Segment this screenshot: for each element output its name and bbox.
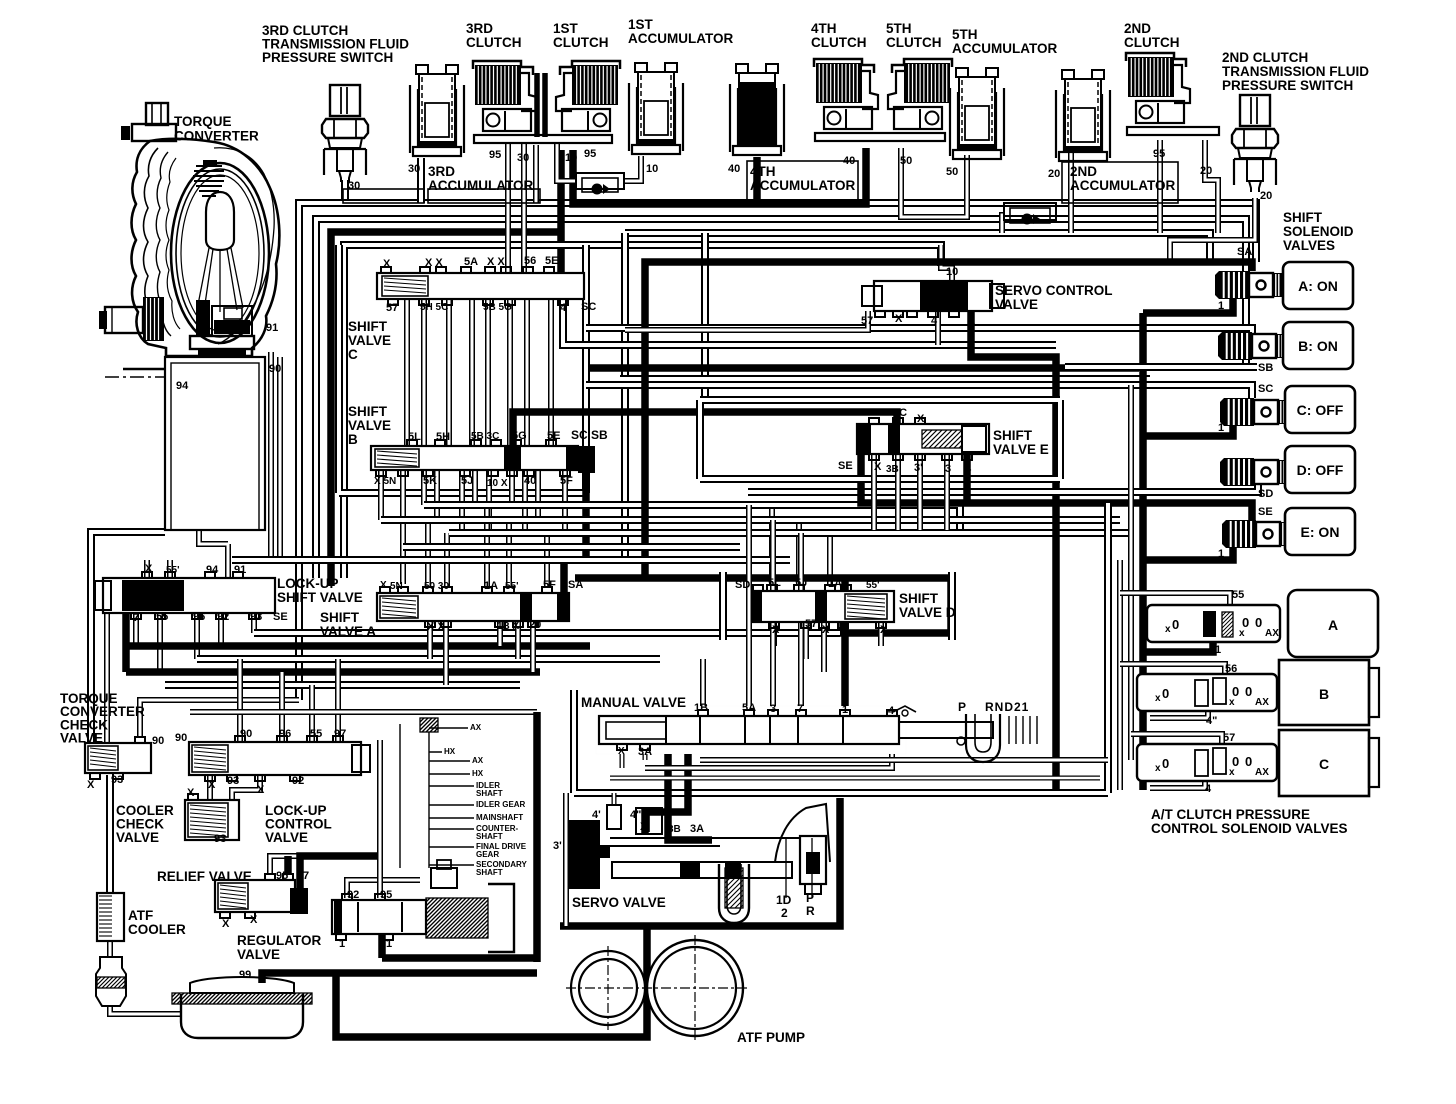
svg-text:VALVE: VALVE — [265, 830, 308, 845]
wire 3rd accumulator down — [417, 158, 425, 203]
svg-text:5F: 5F — [560, 475, 573, 487]
svg-text:AX: AX — [1265, 628, 1279, 639]
svg-text:5J: 5J — [461, 475, 473, 487]
left pipe 2 — [104, 613, 110, 743]
svg-text:0: 0 — [1162, 756, 1169, 771]
svg-text:x: x — [1239, 628, 1245, 639]
pressure switch 3rd clutch — [322, 85, 368, 182]
heavy relief to regulator — [288, 856, 380, 893]
wire 3rd clutch 30 drop — [533, 145, 539, 203]
heavy servo box — [560, 798, 840, 926]
wire 10 1st accumulator — [624, 156, 641, 181]
svg-text:1: 1 — [386, 938, 392, 950]
heavy under valve A — [1143, 628, 1213, 652]
svg-text:0: 0 — [1255, 615, 1262, 630]
svg-text:5J: 5J — [795, 577, 807, 589]
wire x625 down — [621, 233, 629, 560]
svg-text:7: 7 — [303, 870, 309, 882]
svg-text:20: 20 — [1200, 165, 1212, 177]
svg-text:95: 95 — [584, 148, 596, 160]
wire check to 1st clutch — [557, 143, 576, 181]
pipe y778 inner manual box — [610, 776, 1100, 781]
pipes 90/91 torque converter down — [268, 352, 274, 560]
56 pipe to valve B — [1120, 664, 1225, 674]
svg-text:5K: 5K — [423, 475, 437, 487]
svg-text:HX: HX — [444, 747, 456, 756]
wire x705 down — [701, 233, 709, 400]
svg-text:R: R — [806, 904, 815, 918]
shift solenoid E: ON — [1222, 520, 1226, 548]
svg-text:REGULATOR: REGULATOR — [237, 933, 322, 948]
svg-text:x: x — [1155, 693, 1161, 704]
svg-text:57: 57 — [1223, 732, 1235, 744]
heavy line to solenoid C — [1143, 424, 1233, 436]
svg-text:SOLENOID: SOLENOID — [1283, 224, 1354, 239]
svg-text:40: 40 — [524, 475, 536, 487]
manual valve detent — [966, 714, 1000, 762]
svg-text:3C: 3C — [893, 407, 907, 419]
svg-text:1ST: 1ST — [628, 17, 654, 32]
svg-text:4': 4' — [592, 809, 601, 821]
svg-text:x: x — [1155, 763, 1161, 774]
svg-text:90: 90 — [152, 735, 164, 747]
heavy 3C line valve B to valve E — [513, 412, 897, 446]
wire y233 run — [625, 233, 1210, 262]
wire 2nd clutch 20 — [1205, 140, 1218, 233]
svg-text:50 30: 50 30 — [424, 581, 449, 592]
shift valve A bottom pipes — [427, 622, 433, 659]
torque converter check valve — [85, 743, 151, 773]
svg-text:5B 5G: 5B 5G — [483, 302, 512, 313]
svg-text:95: 95 — [489, 149, 501, 161]
big pipe box manual valve — [574, 503, 1108, 793]
wire 95 3rd clutch — [505, 143, 511, 273]
svg-text:SHIFT VALVE: SHIFT VALVE — [277, 590, 363, 605]
svg-text:1A: 1A — [828, 578, 842, 590]
svg-text:SD: SD — [735, 579, 750, 591]
svg-text:MAINSHAFT: MAINSHAFT — [476, 813, 523, 822]
svg-text:55: 55 — [1232, 589, 1244, 601]
svg-text:3B: 3B — [886, 464, 899, 475]
svg-text:VALVES: VALVES — [1283, 238, 1335, 253]
svg-text:VALVE E: VALVE E — [993, 442, 1049, 457]
svg-text:90: 90 — [175, 732, 187, 744]
svg-text:PRESSURE SWITCH: PRESSURE SWITCH — [1222, 78, 1353, 93]
lock-up valve top pipes — [144, 560, 150, 578]
svg-text:SD: SD — [1258, 488, 1273, 500]
wire heavy 4th accumulator drop — [753, 157, 761, 204]
lock-up control bottom pipes — [207, 776, 213, 800]
svg-text:X: X — [917, 413, 925, 425]
svg-text:20: 20 — [1048, 168, 1060, 180]
svg-text:96: 96 — [193, 611, 205, 623]
svg-text:SA: SA — [1237, 246, 1252, 258]
5th accumulator — [950, 68, 1004, 159]
svg-text:X: X — [187, 787, 195, 799]
svg-text:1B: 1B — [694, 702, 708, 714]
svg-text:1: 1 — [841, 620, 847, 632]
svg-text:5E: 5E — [545, 255, 558, 267]
svg-text:90: 90 — [240, 728, 252, 740]
shift solenoid A: ON — [1215, 271, 1219, 299]
heavy manual 3A — [645, 744, 688, 834]
svg-text:10: 10 — [565, 152, 577, 164]
pipe run y345 — [563, 299, 1056, 345]
svg-text:0: 0 — [1172, 617, 1179, 632]
svg-text:X X: X X — [425, 257, 443, 269]
svg-text:1: 1 — [1218, 300, 1224, 312]
svg-text:HX: HX — [472, 769, 484, 778]
oil pan — [181, 994, 303, 1038]
svg-text:SHAFT: SHAFT — [476, 789, 503, 798]
svg-text:VALVE D: VALVE D — [899, 605, 956, 620]
servo control 4 pipe down — [935, 311, 941, 345]
svg-text:55': 55' — [166, 565, 180, 576]
svg-text:X: X — [257, 784, 265, 796]
svg-text:SE: SE — [273, 611, 288, 623]
manual valve 4 down — [645, 744, 892, 768]
servo 4-prime pipe up — [612, 793, 617, 805]
A/T pressure control valve A — [1147, 605, 1280, 642]
svg-text:50: 50 — [946, 166, 958, 178]
svg-text:93: 93 — [227, 775, 239, 787]
manual valve top pipes — [700, 659, 706, 710]
shift solenoid C: OFF — [1220, 398, 1224, 426]
wire top band y203 — [299, 203, 1256, 700]
svg-text:5TH: 5TH — [952, 27, 978, 42]
svg-text:ACCUMULATOR: ACCUMULATOR — [952, 41, 1057, 56]
heavy 4 port valve E — [963, 455, 971, 505]
svg-text:X: X — [618, 746, 625, 757]
svg-text:B: ON: B: ON — [1298, 338, 1338, 354]
svg-text:3': 3' — [553, 840, 562, 852]
svg-text:ACCUMULATOR: ACCUMULATOR — [428, 178, 533, 193]
svg-text:3: 3 — [969, 317, 975, 329]
pipe run y328 — [586, 328, 1252, 352]
pipes bands to shift valve A ports — [425, 520, 431, 588]
svg-text:A/T CLUTCH PRESSURE: A/T CLUTCH PRESSURE — [1151, 807, 1310, 822]
svg-text:5F: 5F — [543, 579, 556, 591]
svg-text:3: 3 — [945, 463, 951, 475]
svg-text:5A: 5A — [742, 702, 756, 714]
svg-text:X: X — [640, 821, 648, 833]
svg-text:57: 57 — [386, 302, 398, 314]
svg-text:VALVE: VALVE — [237, 947, 280, 962]
svg-text:SC SB: SC SB — [571, 428, 608, 442]
wire from 3rd switch — [341, 180, 349, 199]
servo piston curved top — [775, 804, 830, 862]
tank to lockup pipe — [199, 530, 228, 578]
wire heavy 1st clutch down — [557, 150, 565, 273]
svg-text:4: 4 — [888, 705, 895, 717]
lock-up control valve top pipes — [237, 659, 243, 741]
svg-text:LOCK-UP: LOCK-UP — [277, 576, 339, 591]
svg-text:90: 90 — [269, 363, 281, 375]
heavy line to solenoid E — [1143, 546, 1233, 560]
svg-text:CLUTCH: CLUTCH — [1124, 35, 1180, 50]
wire 3rd switch down — [341, 180, 349, 203]
svg-text:55': 55' — [866, 580, 880, 591]
svg-text:57: 57 — [861, 315, 873, 327]
svg-text:95: 95 — [276, 870, 288, 882]
svg-text:AX: AX — [1255, 767, 1269, 778]
svg-text:3A: 3A — [638, 746, 652, 758]
atf pump small circle — [571, 951, 645, 1025]
shift valve D bottom pipes — [771, 623, 777, 646]
svg-text:1B X: 1B X — [497, 621, 520, 632]
wire heavy band y232 — [331, 232, 564, 586]
regulator 92/95 pipes up — [347, 880, 420, 898]
svg-text:3': 3' — [914, 462, 923, 474]
heavy manual to servo — [668, 744, 712, 840]
svg-text:X: X — [822, 624, 830, 636]
wire 5th clutch 50 U — [901, 148, 967, 217]
heavy SA line — [645, 262, 1252, 578]
heavy line to solenoid A — [1143, 297, 1233, 313]
svg-text:55: 55 — [310, 728, 322, 740]
svg-text:10: 10 — [946, 266, 958, 278]
pipe run y520 — [381, 516, 1120, 524]
atf cooler — [97, 893, 124, 941]
svg-text:C: C — [348, 347, 358, 362]
pipe 4pp under valve B — [1150, 711, 1208, 718]
svg-text:4: 4 — [931, 315, 938, 327]
pipe run y560 — [232, 556, 790, 564]
2nd clutch plate — [1127, 127, 1219, 135]
relief valve — [215, 880, 295, 912]
57 pipe to valve C — [1131, 734, 1222, 744]
check valve (ball) near 1st accumulator — [576, 173, 624, 189]
lock-up shift valve — [103, 578, 275, 613]
svg-text:10: 10 — [646, 163, 658, 175]
2nd accumulator — [1056, 70, 1110, 161]
svg-text:55': 55' — [505, 581, 519, 592]
svg-text:0: 0 — [1245, 754, 1252, 769]
svg-text:x: x — [1229, 697, 1235, 708]
heavy bottom run — [336, 926, 647, 1037]
svg-text:SHIFT: SHIFT — [1283, 210, 1323, 225]
svg-text:7: 7 — [797, 703, 803, 715]
svg-text:CONVERTER: CONVERTER — [174, 129, 259, 144]
svg-text:IDLER GEAR: IDLER GEAR — [476, 800, 526, 809]
svg-text:5E: 5E — [547, 430, 560, 442]
pipe run y379 — [620, 375, 1150, 383]
wire top band y219 — [316, 219, 1246, 578]
wire check2 left — [1002, 215, 1004, 233]
svg-text:AX: AX — [470, 723, 482, 732]
svg-text:SHIFT: SHIFT — [993, 428, 1033, 443]
svg-text:CLUTCH: CLUTCH — [886, 35, 942, 50]
svg-text:B: B — [348, 432, 358, 447]
svg-text:5TH: 5TH — [886, 21, 912, 36]
svg-text:AX: AX — [472, 756, 484, 765]
shared bottom plate 3rd/1st clutch — [474, 135, 612, 143]
svg-text:SC: SC — [581, 301, 596, 313]
pipe run y547 — [403, 543, 740, 551]
svg-text:1D: 1D — [776, 893, 792, 907]
svg-text:1: 1 — [1218, 548, 1224, 560]
svg-text:94: 94 — [206, 564, 219, 576]
heavy run y578 — [575, 578, 951, 633]
strainer to pan — [110, 1006, 181, 1014]
svg-text:MANUAL VALVE: MANUAL VALVE — [581, 695, 686, 710]
svg-text:4": 4" — [630, 809, 641, 821]
svg-text:VALVE A: VALVE A — [320, 624, 376, 639]
heavy regulator box — [382, 712, 537, 962]
svg-text:1: 1 — [1215, 644, 1221, 656]
1st clutch — [556, 61, 620, 131]
pipe run y505 — [424, 505, 960, 530]
svg-text:99: 99 — [239, 969, 251, 981]
svg-text:P: P — [806, 891, 814, 905]
svg-text:94: 94 — [176, 380, 189, 392]
svg-text:91: 91 — [266, 322, 278, 334]
svg-text:40: 40 — [728, 163, 740, 175]
svg-text:CLUTCH: CLUTCH — [553, 35, 609, 50]
svg-text:4: 4 — [1205, 783, 1212, 795]
shift valve E port pipes down — [871, 455, 877, 530]
svg-text:X: X — [880, 624, 888, 636]
svg-text:CONTROL SOLENOID VALVES: CONTROL SOLENOID VALVES — [1151, 821, 1348, 836]
pipe box around shift valve C/B — [339, 245, 586, 493]
check valve (ball) near 2nd accumulator — [1004, 203, 1056, 220]
svg-text:C: OFF: C: OFF — [1297, 402, 1344, 418]
manual valve X/3A port pipes — [620, 750, 625, 768]
svg-text:X 5N: X 5N — [374, 476, 396, 487]
label box 30 — [343, 189, 424, 203]
heavy valve D 1 to 951 — [840, 623, 951, 633]
pipe run y533 — [449, 529, 1131, 537]
pipe y760 inner manual box — [700, 757, 1108, 763]
svg-text:4: 4 — [965, 463, 972, 475]
svg-text:SB: SB — [1258, 362, 1273, 374]
svg-text:40: 40 — [843, 155, 855, 167]
cooler to strainer — [107, 941, 113, 957]
pressure switch 2nd clutch — [1232, 95, 1278, 192]
svg-text:3: 3 — [770, 703, 776, 715]
svg-text:5H 5C: 5H 5C — [420, 302, 448, 313]
shift valve B — [371, 446, 578, 470]
wire 2nd accumulator down — [1068, 150, 1074, 233]
svg-text:3A: 3A — [690, 823, 704, 835]
4th clutch — [814, 59, 878, 129]
svg-text:A: A — [1328, 617, 1338, 633]
heavy manual 1 — [841, 578, 849, 710]
svg-text:5N: 5N — [390, 581, 403, 592]
svg-text:5B 3C: 5B 3C — [471, 431, 499, 442]
heavy band y646 — [126, 642, 590, 650]
svg-text:10 X: 10 X — [487, 478, 508, 489]
wire 2nd switch down — [1170, 198, 1255, 262]
5th clutch — [888, 59, 952, 129]
svg-text:X X: X X — [427, 621, 445, 633]
svg-text:93: 93 — [214, 833, 226, 845]
svg-text:1: 1 — [1218, 422, 1224, 434]
detent ticks — [1008, 716, 1010, 744]
svg-text:95: 95 — [1153, 148, 1165, 160]
svg-text:RELIEF VALVE: RELIEF VALVE — [157, 869, 252, 884]
svg-text:0: 0 — [1245, 684, 1252, 699]
svg-text:SC: SC — [1258, 383, 1273, 395]
svg-text:55: 55 — [156, 611, 168, 623]
4th accumulator — [730, 64, 784, 155]
svg-text:CLUTCH: CLUTCH — [466, 35, 522, 50]
3rd clutch — [473, 61, 537, 131]
svg-text:PRESSURE SWITCH: PRESSURE SWITCH — [262, 50, 393, 65]
svg-text:X: X — [208, 779, 216, 791]
2nd clutch — [1126, 53, 1190, 123]
label box 4th accumulator — [747, 161, 858, 202]
left outer pipe — [91, 532, 165, 743]
svg-text:30: 30 — [408, 163, 420, 175]
shift valve E — [857, 424, 989, 454]
svg-text:SHAFT: SHAFT — [476, 832, 503, 841]
svg-text:x: x — [1165, 624, 1171, 635]
svg-text:SHIFT: SHIFT — [899, 591, 939, 606]
manual valve spool — [596, 706, 906, 754]
wire heavy y204 run — [573, 148, 866, 204]
pipes right column down — [1117, 560, 1123, 790]
servo control 57 pipe — [625, 311, 868, 330]
pipe SD line — [748, 484, 1258, 492]
svg-text:56: 56 — [524, 255, 536, 267]
regulator spring — [426, 898, 488, 938]
svg-text:5A: 5A — [464, 256, 478, 268]
svg-text:0: 0 — [1162, 686, 1169, 701]
pipe band y633 — [254, 629, 840, 637]
svg-text:CLUTCH: CLUTCH — [811, 35, 867, 50]
svg-text:50: 50 — [900, 155, 912, 167]
label box 3rd accumulator — [428, 189, 540, 203]
svg-text:VALVE: VALVE — [116, 830, 159, 845]
svg-text:2ND: 2ND — [1124, 21, 1151, 36]
pipe 4 under valve C — [1150, 781, 1205, 788]
pipes below shift valve B — [378, 470, 384, 520]
3rd accumulator — [410, 65, 464, 156]
svg-text:ATF: ATF — [128, 908, 153, 923]
lock-up control valve — [189, 742, 361, 775]
servo valve black body — [568, 820, 610, 889]
svg-text:ACCUMULATOR: ACCUMULATOR — [628, 31, 733, 46]
svg-text:SHIFT: SHIFT — [320, 610, 360, 625]
heavy servo control 3 down — [971, 311, 1056, 790]
svg-text:2ND CLUTCH: 2ND CLUTCH — [1222, 50, 1308, 65]
regulator valve — [332, 900, 426, 934]
svg-text:95: 95 — [380, 889, 392, 901]
heavy SB to spine — [588, 364, 1139, 372]
svg-text:2ND: 2ND — [1070, 164, 1097, 179]
pipe SB line — [1065, 363, 1257, 371]
SB black port — [578, 446, 595, 473]
svg-text:VALVE: VALVE — [995, 297, 1038, 312]
svg-text:X: X — [145, 563, 153, 575]
shift solenoid D: OFF — [1220, 458, 1224, 486]
bottom plate 4th/5th clutch — [815, 133, 945, 141]
pipes bands to shift valve D ports — [769, 505, 775, 586]
svg-text:GEAR: GEAR — [476, 850, 499, 859]
svg-text:5L: 5L — [768, 577, 781, 589]
svg-text:X: X — [87, 779, 95, 791]
atf pump large circle — [647, 940, 743, 1036]
svg-text:4": 4" — [1206, 715, 1217, 727]
pipe band y685 — [165, 681, 520, 689]
cooler line down — [106, 775, 114, 893]
wire 2nd clutch 95 — [1157, 140, 1163, 233]
svg-text:VALVE: VALVE — [348, 418, 391, 433]
svg-text:1: 1 — [339, 938, 345, 950]
A/T pressure control valve B — [1137, 674, 1277, 711]
svg-text:ATF PUMP: ATF PUMP — [737, 1030, 805, 1045]
